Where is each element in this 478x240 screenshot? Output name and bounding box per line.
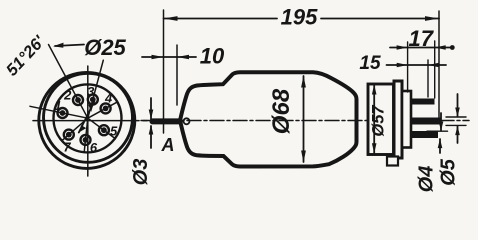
outer circle of base (second edge) [39, 72, 135, 168]
exhaust tip seal loop [184, 118, 190, 124]
pin 1 radial [30, 106, 88, 118]
pin bottom [411, 131, 438, 138]
extension line E2 (end of nipple) [176, 45, 178, 105]
exhaust tip nipple [153, 118, 181, 124]
dimension Ø4 of bottom pin [427, 130, 448, 132]
pin 5 [99, 125, 109, 135]
pin top [411, 99, 435, 105]
dimension 17 [390, 47, 408, 49]
horizontal centerline [33, 120, 139, 122]
dimension Ø5 of middle pin [446, 116, 466, 118]
svg-text:6: 6 [90, 140, 98, 155]
svg-text:17: 17 [408, 26, 434, 51]
svg-text:Ø3: Ø3 [130, 159, 152, 186]
svg-text:Ø4: Ø4 [416, 166, 438, 193]
extension line V2 [427, 60, 429, 97]
pin 5 radial [88, 118, 115, 138]
base shell cylinder [368, 84, 394, 155]
base key bump [387, 157, 398, 166]
extension line V3 [434, 41, 436, 98]
pin 4 radial [88, 102, 118, 118]
label Ø25 leader arrow [55, 45, 84, 47]
svg-text:Ø5: Ø5 [438, 158, 460, 186]
centerline dot [143, 120, 147, 122]
svg-text:15: 15 [359, 53, 381, 74]
svg-text:Ø68: Ø68 [268, 88, 295, 134]
pin 2 [73, 95, 83, 105]
dimension 15 [387, 64, 408, 66]
svg-text:195: 195 [281, 5, 318, 30]
svg-text:7: 7 [63, 140, 71, 155]
svg-text:10: 10 [200, 44, 225, 69]
key direction double arrow [79, 102, 95, 133]
pin 1 [58, 108, 68, 118]
pin 3 radial [88, 60, 104, 118]
svg-text:1: 1 [54, 98, 61, 113]
centerline [141, 120, 469, 122]
svg-text:2: 2 [63, 87, 72, 102]
extension line V1 (base rim end plane) [407, 42, 409, 92]
inner circle of base [54, 84, 122, 152]
svg-text:A: A [161, 135, 175, 155]
dimension 10 [142, 56, 164, 58]
tube envelope outline [180, 72, 357, 166]
outer circle of base (outer rolled edge) [44, 73, 133, 162]
dimension Ø3 of tip [150, 98, 152, 119]
svg-text:Ø57: Ø57 [370, 105, 388, 137]
svg-text:4: 4 [104, 91, 113, 106]
extension line E1 (tube tip plane) [163, 10, 165, 133]
pin 4 [101, 103, 111, 113]
pin 6 [81, 135, 91, 145]
dimension Ø68 [303, 76, 305, 162]
base rim [394, 81, 402, 158]
svg-text:Ø25: Ø25 [84, 35, 126, 60]
pin 6 radial [84, 118, 88, 152]
vertical centerline [87, 66, 89, 176]
svg-text:3: 3 [87, 84, 95, 99]
svg-text:51°26': 51°26' [3, 32, 49, 80]
pin 3 [88, 95, 98, 105]
pin 7 [64, 130, 74, 140]
extension line V4 (pin tips plane) [438, 11, 440, 118]
dimension Ø57 [373, 85, 375, 153]
pin 2 radial [49, 45, 88, 119]
svg-text:5: 5 [110, 123, 118, 138]
dimension 195 line [164, 18, 278, 20]
pin middle [411, 118, 441, 125]
pin 7 radial [62, 118, 88, 140]
base wafer [402, 91, 411, 148]
